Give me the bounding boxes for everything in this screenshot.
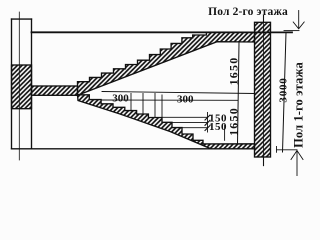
svg-text:300: 300 — [177, 94, 194, 106]
svg-text:150: 150 — [209, 121, 227, 133]
svg-text:3000: 3000 — [278, 77, 290, 102]
right wall axis stub top — [263, 16, 265, 23]
upper stair flight with ceiling slab — [78, 32, 255, 95]
right wall — [255, 22, 271, 157]
1st floor level mark — [277, 149, 298, 151]
left wall axis line — [18, 12, 20, 160]
extension tick at step nose 2 — [142, 94, 144, 115]
riser height extension line 3 — [182, 127, 208, 129]
svg-text:1650: 1650 — [227, 107, 241, 136]
extension line near lower 1650 — [224, 126, 226, 141]
landing level extension line — [102, 92, 255, 94]
lower stair flight with 1st floor slab — [78, 95, 255, 149]
svg-text:Пол 1-го этажа: Пол 1-го этажа — [291, 61, 305, 147]
riser height dimension line (150+150) — [207, 113, 209, 133]
2nd floor level mark — [284, 30, 299, 32]
right wall axis stub bottom — [263, 157, 265, 166]
tread width dimension line (300+300) — [102, 99, 238, 101]
extension tick at step nose 1 — [130, 94, 132, 111]
left wall — [11, 19, 13, 149]
riser height extension line 1 — [162, 116, 208, 118]
right wall axis line — [263, 16, 265, 166]
dimension tick — [205, 115, 210, 120]
3000 dimension line — [283, 33, 287, 152]
dimension tick — [205, 126, 210, 131]
riser extension vertical — [161, 95, 163, 117]
1650 dimension line — [238, 43, 240, 145]
extension tick at step nose 3 — [154, 94, 156, 118]
dimension tick — [205, 120, 210, 125]
svg-text:Пол 2-го этажа: Пол 2-го этажа — [208, 6, 288, 18]
svg-text:1650: 1650 — [227, 57, 241, 86]
riser height extension line 2 — [172, 121, 208, 123]
1st floor line — [32, 148, 212, 150]
svg-text:300: 300 — [112, 93, 129, 105]
intermediate landing slab — [32, 86, 78, 95]
left wall hatched section — [12, 65, 32, 109]
2nd floor line — [32, 31, 293, 33]
